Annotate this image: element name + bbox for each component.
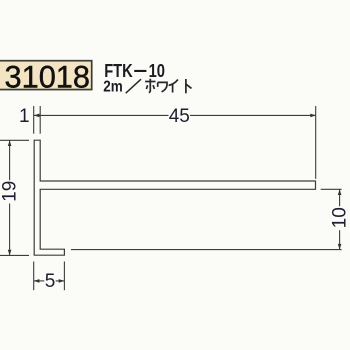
svg-text:2m: 2m xyxy=(103,79,123,96)
svg-text:45: 45 xyxy=(169,106,190,127)
svg-text:10: 10 xyxy=(149,61,165,81)
svg-text:19: 19 xyxy=(0,181,21,202)
svg-text:1: 1 xyxy=(19,106,30,127)
svg-text:5: 5 xyxy=(45,271,56,292)
svg-text:31018: 31018 xyxy=(5,58,91,94)
svg-text:10: 10 xyxy=(329,207,350,228)
